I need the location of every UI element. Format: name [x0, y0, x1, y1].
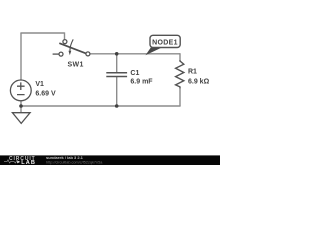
wire: C1 bottom segment: [116, 77, 118, 106]
wire: bottom rail: [21, 105, 181, 107]
wire: switch output to right corner: [90, 53, 180, 55]
junction dot at V1 bottom: [19, 104, 23, 108]
svg-text:6.69 V: 6.69 V: [35, 90, 56, 97]
switch lever: [59, 43, 86, 53]
switch actuation arrow: [70, 39, 73, 51]
svg-text:R1: R1: [188, 68, 197, 75]
switch SW1: [59, 39, 90, 56]
svg-text:http​://circuitlab.com/c/f52zq: http​://circuitlab.com/c/f52zqk7n5a: [46, 160, 103, 164]
wire: R1 branch bottom segment: [179, 88, 181, 106]
wire: R1 branch top segment: [179, 53, 181, 61]
node flag NODE1 tail: [146, 46, 162, 55]
wire: top horizontal rail: [20, 32, 64, 34]
CircuitLab logo arrow: [17, 160, 20, 163]
capacitor C1: [106, 73, 127, 77]
svg-text:6.9 kΩ: 6.9 kΩ: [188, 79, 210, 86]
ground symbol: [12, 113, 30, 124]
junction dot at C1 top: [115, 52, 119, 56]
footer black bar: [0, 155, 220, 165]
junction dot at C1 bottom: [115, 104, 119, 108]
svg-text:SW1: SW1: [68, 61, 84, 68]
wire: drop from top rail to switch terminal: [64, 32, 66, 39]
CircuitLab logo waveform squiggle: [4, 160, 17, 163]
switch terminal circles: [63, 40, 67, 44]
wire: left vertical from V1 top to top rail: [20, 33, 22, 80]
wire: rail to ground stub: [20, 106, 22, 113]
svg-text:NODE1: NODE1: [152, 40, 178, 47]
node flag NODE1 box: [150, 35, 180, 47]
voltage source V1: [10, 80, 31, 101]
svg-text:C1: C1: [130, 70, 139, 77]
resistor R1: [176, 60, 184, 88]
svg-text:V1: V1: [35, 81, 44, 88]
wire: C1 top segment: [116, 54, 118, 73]
svg-text:6.9 mF: 6.9 mF: [130, 78, 153, 85]
wire: switch open stub: [53, 53, 59, 55]
wire: V1 bottom to rail: [20, 101, 22, 106]
svg-text:LAB: LAB: [21, 160, 36, 165]
